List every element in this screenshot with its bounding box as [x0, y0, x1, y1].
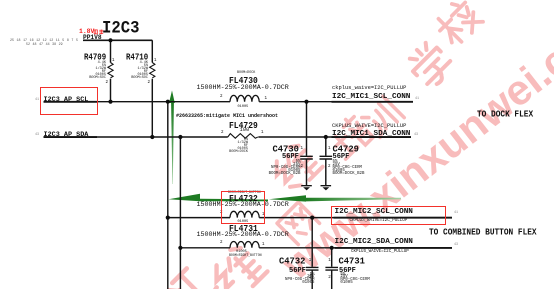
ferrite FL4730 label: [229, 77, 258, 86]
C4730 pin 1: [301, 147, 304, 151]
C4732 value 56PF: [289, 268, 306, 275]
watermark char xue: [404, 39, 455, 90]
C4729 pin 1: [328, 147, 331, 151]
thick label underlines: [44, 101, 99, 103]
FL4730 package 01005: [238, 106, 249, 110]
FL4731 package 01005: [236, 251, 247, 255]
R4709 pin 1: [112, 59, 115, 63]
resistor R4709 body wires: [110, 40, 112, 101]
wire SDA to MIC1_SDA label: [258, 136, 410, 138]
MIC2_SCL sheet pin 41: [454, 212, 458, 215]
net label I2C_MIC1_SCL_CONN: [332, 94, 410, 102]
watermark char wei (middle): [269, 140, 323, 194]
MIC1_SDA sheet pin 43: [414, 134, 418, 137]
TO COMBINED BUTTON FLEX: [429, 230, 537, 239]
FL4732 attr BOOM=RIGHT_BUTTON: [228, 191, 261, 194]
FL4730 attr BOOM=DOCK: [237, 72, 255, 75]
capacitor C4732 label: [279, 257, 305, 266]
C4732 attr stack: [274, 274, 315, 286]
junction C4729 / SDA: [324, 135, 328, 139]
net label I2C_MIC1_SDA_CONN: [332, 131, 410, 139]
FL4729 value stack: [218, 139, 248, 154]
inductor FL4731 bumps: [230, 242, 259, 248]
wire SCL branch vertical: [167, 102, 169, 289]
FL4730 value label: [197, 85, 289, 92]
FL4732 package 01005: [238, 221, 249, 225]
capacitor C4731 label: [339, 257, 365, 266]
R4710 value stack: [118, 62, 148, 80]
inductor FL4730 bumps: [230, 95, 259, 101]
tiny pin number row: [10, 39, 78, 42]
MIC2_SDA attr CKPLUS_WAIVE: [351, 250, 409, 254]
wire MIC2 SDA row left: [180, 247, 230, 249]
MIC1_SCL sheet pin 41: [415, 98, 419, 101]
C4730 value 56PF: [282, 154, 299, 161]
junction SCL2 branch: [166, 216, 170, 220]
red box FL4732: [221, 191, 265, 225]
red 1.8V supply annotation: [79, 29, 94, 35]
C4731 value 56PF: [339, 268, 356, 275]
FL4731 pin 2: [220, 241, 223, 245]
watermark char pei: [326, 113, 375, 162]
junction SCL branch: [166, 100, 170, 104]
ferrite FL4731 label: [229, 225, 258, 234]
MIC1_SDA attr CKPLUS_WAIVE: [332, 124, 406, 129]
watermark char xun (partially cut, bottom left): [163, 263, 222, 289]
capacitor C4730 label: [273, 145, 299, 154]
red box I2C3_AP_SCL: [40, 87, 98, 115]
FL4731 value label: [197, 232, 289, 239]
resistor R4710 body wires: [151, 40, 153, 137]
R4709 pin 2: [106, 81, 109, 85]
FL4732 value label: [197, 202, 289, 209]
junction PP1V8 / R4709: [108, 38, 112, 42]
resistor R4709 zigzag: [108, 63, 113, 78]
green horizontal arrow 1: [169, 194, 201, 202]
watermark char xiao: [433, 0, 484, 48]
capacitor C4730 wires: [306, 102, 308, 186]
net PP1V8: [83, 35, 102, 41]
capacitor C4731 plates: [325, 267, 338, 270]
FL4732 pin 2: [220, 211, 223, 215]
R4710 pin 2: [148, 81, 151, 85]
FL4731 pin 1: [262, 243, 265, 247]
ferrite FL4732 label: [229, 195, 258, 204]
junction SDA2 branch: [178, 246, 182, 250]
MIC1_SCL attr ckplus_waive: [332, 86, 406, 91]
net label I2C3_AP_SDA: [44, 132, 89, 139]
capacitor C4729 plates: [320, 156, 333, 159]
R4710 pin 1: [154, 59, 157, 63]
power rail PP1V8: [83, 39, 152, 41]
MIC2_SDA sheet pin 43: [454, 244, 458, 247]
junction C4732 / SCL2: [310, 216, 314, 220]
junction SDA branch: [178, 135, 182, 139]
capacitor C4731 wires: [331, 248, 333, 289]
FL4731 attr BOOM=RIGHT_BUTTON: [229, 254, 262, 257]
FL4729 pin 2: [221, 131, 224, 135]
ground below C4729: [321, 185, 332, 190]
C4732 pin 2: [309, 276, 312, 280]
AP_SDA sheet pin 43: [35, 134, 39, 137]
FL4729 pin 1: [261, 131, 264, 135]
net label I2C_MIC2_SDA_CONN: [335, 239, 413, 247]
junction R4710 / SDA: [150, 135, 154, 139]
inductor FL4732 bumps: [230, 211, 259, 217]
wire SDA branch vertical: [179, 137, 181, 289]
FL4730 pin 2: [220, 95, 223, 99]
C4731 pin 1: [328, 259, 331, 263]
wire I2C3_AP_SDA horizontal: [44, 136, 228, 138]
wire MIC2 SCL row left: [168, 217, 230, 219]
C4729 attr stack: [333, 161, 365, 176]
junction C4731 / SDA2: [330, 246, 334, 250]
C4730 attr stack: [260, 161, 301, 176]
capacitor C4732 wires: [311, 218, 313, 289]
green horizontal arrow 2: [269, 195, 306, 201]
wire MIC2 SDA row right: [259, 247, 451, 249]
red box I2C_MIC2_SCL_CONN: [331, 206, 447, 225]
wire MIC2 SCL row right: [259, 217, 451, 219]
net label I2C_MIC2_SCL_CONN: [335, 209, 413, 217]
MIC2_SCL attr CKPLUS_WAIVE: [350, 219, 408, 223]
capacitor C4730 plates: [300, 156, 313, 159]
resistor R4710 label: [126, 55, 148, 64]
C4729 value 56PF: [333, 154, 350, 161]
watermark char wang (middle): [277, 202, 319, 244]
resistor FL4729 label: [229, 122, 258, 131]
C4730 pin 2: [301, 165, 304, 169]
C4731 pin 2: [328, 276, 331, 280]
resistor R4709 label: [84, 55, 106, 64]
watermark char wei (bottom left): [208, 242, 268, 289]
title I2C3: [102, 20, 139, 37]
resistor R4710 zigzag: [150, 63, 155, 78]
FL4732 pin 1: [262, 213, 265, 217]
wire I2C3_AP_SCL horizontal: [44, 101, 231, 103]
C4729 pin 2: [328, 165, 331, 169]
wire SCL to MIC1_SCL label: [259, 101, 411, 103]
net label I2C3_AP_SCL: [44, 97, 89, 104]
capacitor C4729 label: [333, 145, 359, 154]
FL4729 value 100: [240, 128, 250, 133]
watermark url text: [276, 23, 554, 288]
R4709 value stack: [76, 62, 106, 80]
watermark char xun2: [361, 96, 404, 139]
resistor FL4729 zigzag: [228, 134, 258, 139]
FL4730 pin 1: [265, 97, 268, 101]
junction R4709 / SCL: [108, 100, 112, 104]
green vertical arrow: [169, 91, 175, 104]
C4731 attr stack: [340, 274, 369, 286]
capacitor C4732 plates: [306, 267, 319, 270]
TO DOCK FLEX: [477, 112, 533, 121]
ground below C4730: [301, 185, 312, 190]
mitigate comment: [176, 114, 278, 119]
C4732 pin 1: [309, 259, 312, 263]
AP_SCL sheet pin 41: [35, 99, 39, 102]
capacitor C4729 wires: [325, 137, 327, 185]
junction C4730 / SCL: [304, 100, 308, 104]
